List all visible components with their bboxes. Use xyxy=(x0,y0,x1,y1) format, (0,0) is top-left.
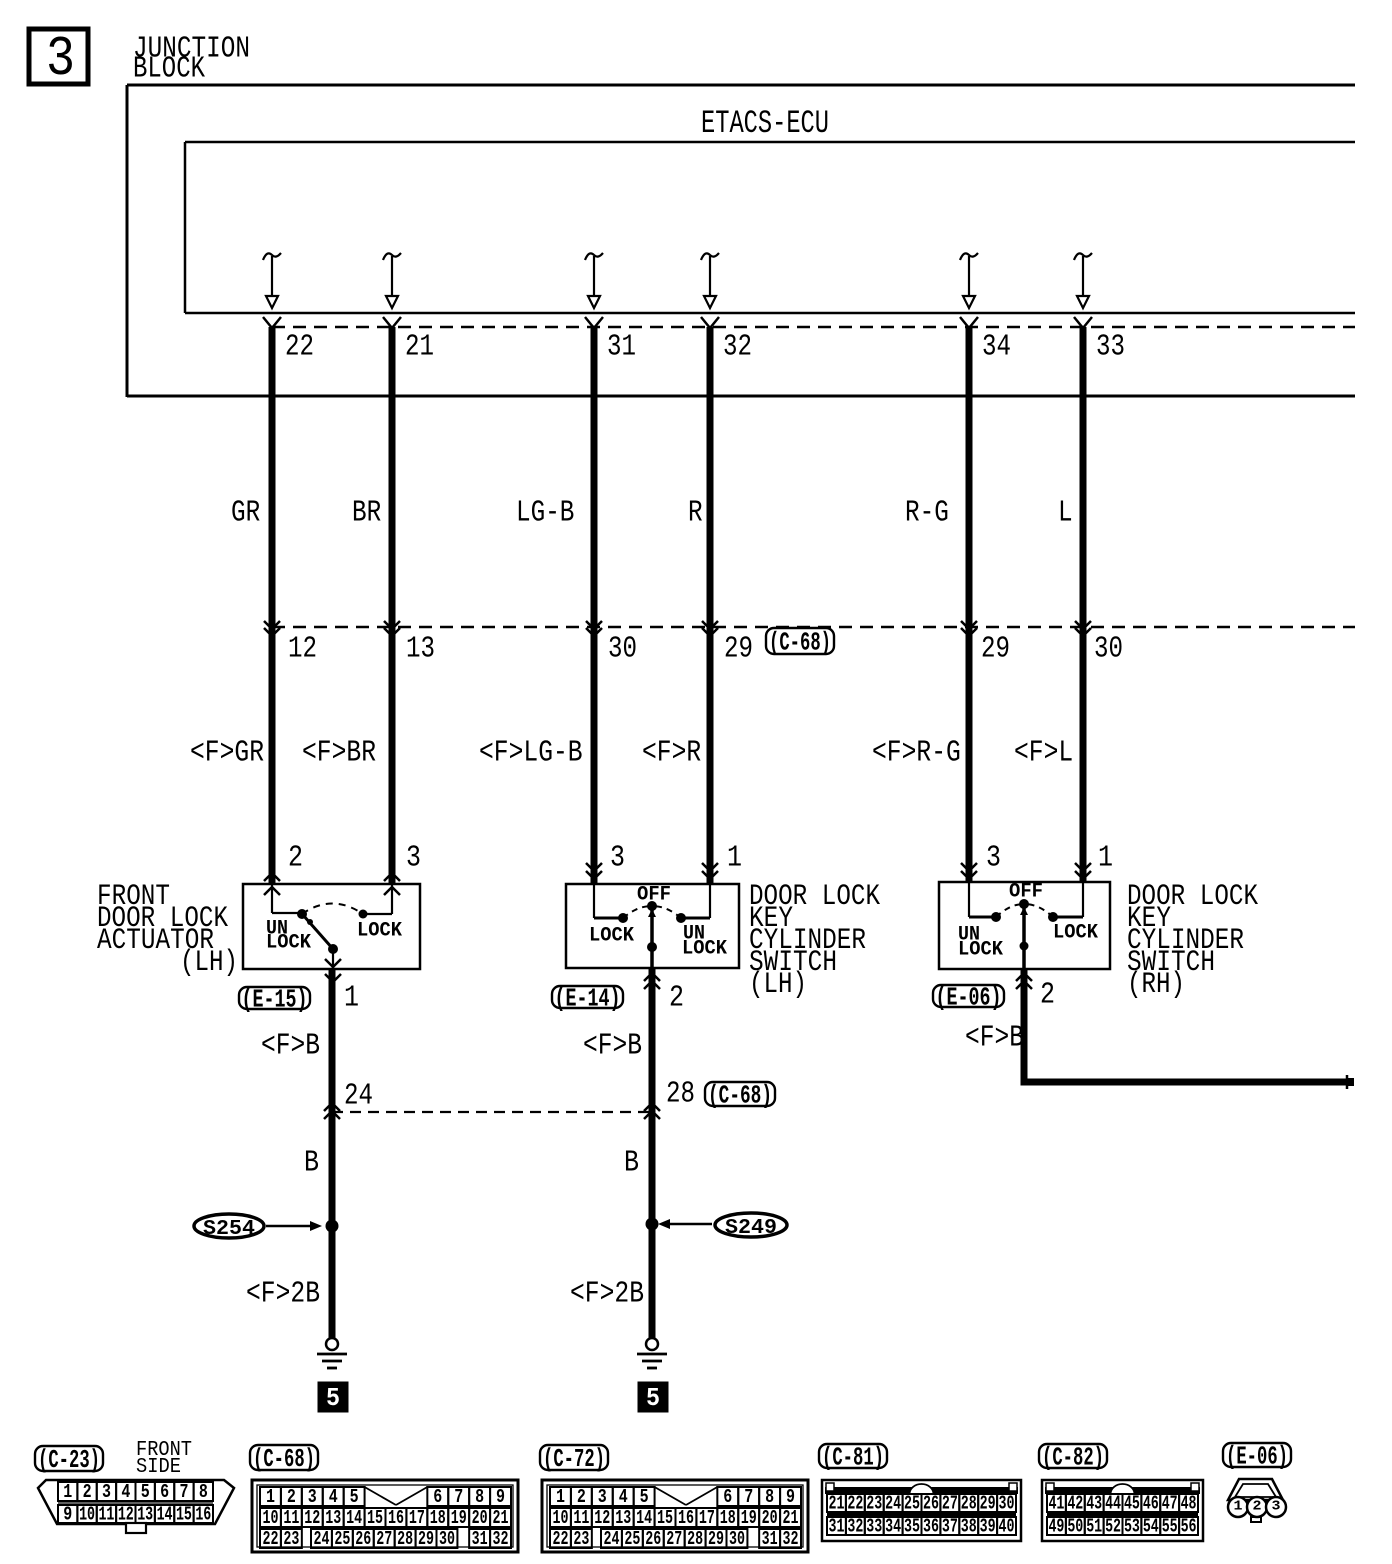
ground symbol xyxy=(317,1338,347,1368)
terminal fork pin 22 xyxy=(263,317,281,328)
svg-text:34: 34 xyxy=(885,1515,901,1537)
svg-text:LOCK: LOCK xyxy=(682,937,727,960)
svg-text:23: 23 xyxy=(573,1528,589,1550)
svg-text:<F>R: <F>R xyxy=(642,736,701,771)
svg-text:2: 2 xyxy=(1253,1499,1262,1515)
svg-text:6: 6 xyxy=(160,1481,169,1503)
svg-text:5: 5 xyxy=(640,1486,649,1508)
connector C-72 pinout xyxy=(542,1480,808,1552)
svg-text:5: 5 xyxy=(141,1481,150,1503)
svg-text:12: 12 xyxy=(288,632,317,667)
svg-text:39: 39 xyxy=(980,1515,996,1537)
svg-text:27: 27 xyxy=(376,1528,392,1550)
ground reference 5 box xyxy=(638,1382,668,1413)
connector arrows at pin 30 xyxy=(1075,621,1091,636)
terminal fork pin 32 xyxy=(701,317,719,328)
svg-text:3: 3 xyxy=(406,841,421,876)
svg-text:OFF: OFF xyxy=(637,883,671,906)
svg-text:49: 49 xyxy=(1048,1515,1064,1537)
svg-text:SIDE: SIDE xyxy=(136,1456,181,1479)
svg-text:R: R xyxy=(688,496,703,531)
svg-text:37: 37 xyxy=(942,1515,958,1537)
label DOOR LOCK KEY CYLINDER SWITCH (RH) xyxy=(1127,880,1258,1002)
svg-text:12: 12 xyxy=(304,1507,320,1529)
svg-text:29: 29 xyxy=(980,1492,996,1514)
svg-text:(LH): (LH) xyxy=(180,946,238,980)
terminal arrows (up) at actuator xyxy=(384,873,400,895)
connector label C-72 oval xyxy=(540,1445,608,1470)
svg-text:11: 11 xyxy=(98,1503,114,1525)
svg-text:26: 26 xyxy=(645,1528,661,1550)
svg-text:22: 22 xyxy=(262,1528,278,1550)
svg-text:(C-72): (C-72) xyxy=(543,1444,605,1474)
connector arrows at pin 29 xyxy=(702,621,718,636)
svg-text:25: 25 xyxy=(904,1492,920,1514)
svg-text:17: 17 xyxy=(699,1507,715,1529)
svg-text:30: 30 xyxy=(439,1528,455,1550)
svg-text:<F>2B: <F>2B xyxy=(570,1277,644,1312)
svg-text:(C-68): (C-68) xyxy=(253,1444,315,1474)
svg-text:2: 2 xyxy=(577,1486,586,1508)
svg-text:(RH): (RH) xyxy=(1127,968,1185,1002)
svg-text:3: 3 xyxy=(986,841,1001,876)
ground symbol xyxy=(637,1338,667,1368)
svg-text:30: 30 xyxy=(1094,632,1123,667)
wire L wire 33 xyxy=(1080,327,1087,882)
svg-text:22: 22 xyxy=(285,330,314,365)
terminal fork pin 33 xyxy=(1074,317,1092,328)
actuator internal switch xyxy=(272,884,392,969)
svg-text:LOCK: LOCK xyxy=(589,924,634,947)
svg-text:5: 5 xyxy=(350,1486,359,1508)
label FRONT DOOR LOCK ACTUATOR (LH) xyxy=(97,880,238,980)
svg-text:3: 3 xyxy=(598,1486,607,1508)
svg-text:31: 31 xyxy=(828,1515,844,1537)
junction block outline xyxy=(127,85,1355,397)
svg-text:(C-68): (C-68) xyxy=(708,1081,772,1111)
svg-text:16: 16 xyxy=(388,1507,404,1529)
svg-text:31: 31 xyxy=(607,330,636,365)
dashed connector line at ECU pins xyxy=(272,326,1355,329)
connector arrows at pin 29 xyxy=(961,621,977,636)
svg-text:31: 31 xyxy=(472,1528,488,1550)
svg-text:7: 7 xyxy=(744,1486,753,1508)
door lock key cylinder switch (RH) box xyxy=(939,882,1110,969)
svg-text:2: 2 xyxy=(83,1481,92,1503)
svg-text:28: 28 xyxy=(666,1077,695,1112)
connector label C-81 oval xyxy=(819,1444,887,1468)
svg-text:21: 21 xyxy=(493,1507,509,1529)
svg-text:LOCK: LOCK xyxy=(1053,921,1098,944)
svg-text:OFF: OFF xyxy=(1009,880,1043,903)
svg-text:4: 4 xyxy=(329,1486,338,1508)
svg-text:ETACS-ECU: ETACS-ECU xyxy=(701,105,829,142)
svg-text:28: 28 xyxy=(397,1528,413,1550)
svg-text:47: 47 xyxy=(1162,1492,1178,1514)
connector arrows at pin 12 xyxy=(264,621,280,636)
terminal arrows (up) at actuator xyxy=(264,873,280,895)
svg-text:<F>LG-B: <F>LG-B xyxy=(479,736,583,771)
svg-text:(E-15): (E-15) xyxy=(242,985,308,1015)
svg-text:34: 34 xyxy=(982,330,1011,365)
svg-text:48: 48 xyxy=(1181,1492,1197,1514)
svg-text:(C-68): (C-68) xyxy=(769,628,831,658)
svg-text:44: 44 xyxy=(1105,1492,1121,1514)
switch LH exit arrows xyxy=(644,973,660,989)
wire R-G wire 34 xyxy=(966,327,973,882)
svg-text:3: 3 xyxy=(610,841,625,876)
svg-text:16: 16 xyxy=(195,1503,211,1525)
svg-text:(C-81): (C-81) xyxy=(822,1443,884,1473)
svg-text:54: 54 xyxy=(1143,1515,1159,1537)
splice S249 oval xyxy=(715,1213,787,1240)
splice junction dot left xyxy=(326,1220,339,1233)
svg-text:29: 29 xyxy=(724,632,753,667)
switch RH internals xyxy=(969,882,1083,968)
wire B from switch RH xyxy=(1024,968,1348,1082)
svg-text:(E-14): (E-14) xyxy=(555,984,621,1014)
wire B from actuator xyxy=(329,969,336,1338)
svg-text:(C-82): (C-82) xyxy=(1042,1443,1104,1473)
label FRONT SIDE xyxy=(136,1439,192,1479)
svg-text:24: 24 xyxy=(603,1528,619,1550)
svg-text:LOCK: LOCK xyxy=(958,938,1003,961)
svg-text:<F>R-G: <F>R-G xyxy=(872,736,961,771)
svg-text:24: 24 xyxy=(344,1079,373,1114)
wire R wire 32 xyxy=(707,327,714,884)
svg-text:22: 22 xyxy=(847,1492,863,1514)
connector C-82 pinout xyxy=(1042,1480,1203,1541)
svg-text:10: 10 xyxy=(262,1507,278,1529)
svg-text:27: 27 xyxy=(942,1492,958,1514)
svg-text:13: 13 xyxy=(615,1507,631,1529)
svg-text:29: 29 xyxy=(981,632,1010,667)
svg-text:32: 32 xyxy=(847,1515,863,1537)
svg-text:16: 16 xyxy=(678,1507,694,1529)
svg-text:25: 25 xyxy=(624,1528,640,1550)
svg-text:21: 21 xyxy=(828,1492,844,1514)
svg-text:S254: S254 xyxy=(203,1218,255,1241)
svg-text:<F>B: <F>B xyxy=(261,1029,320,1064)
actuator exit arrows xyxy=(325,959,341,982)
svg-text:5: 5 xyxy=(326,1383,340,1413)
terminal arrows (down) at switch xyxy=(1075,863,1091,879)
svg-text:20: 20 xyxy=(762,1507,778,1529)
svg-text:29: 29 xyxy=(418,1528,434,1550)
svg-text:10: 10 xyxy=(552,1507,568,1529)
terminal fork pin 21 xyxy=(383,317,401,328)
terminal arrows (down) at switch xyxy=(702,863,718,879)
connector label C-68 oval xyxy=(250,1445,318,1470)
junction block sheet number 3 box xyxy=(29,29,88,84)
connector label C-82 oval xyxy=(1039,1444,1107,1468)
connector C-68 pinout xyxy=(252,1480,518,1552)
terminal arrows (down) at switch xyxy=(586,863,602,879)
svg-text:(E-06): (E-06) xyxy=(1226,1442,1288,1472)
label UN LOCK xyxy=(682,922,727,960)
svg-text:1: 1 xyxy=(266,1486,275,1508)
svg-text:LG-B: LG-B xyxy=(516,496,574,531)
svg-text:10: 10 xyxy=(79,1503,95,1525)
svg-text:53: 53 xyxy=(1124,1515,1140,1537)
ECU output arrow above pin 33 xyxy=(1074,253,1092,308)
svg-text:30: 30 xyxy=(608,632,637,667)
svg-text:32: 32 xyxy=(723,330,752,365)
svg-text:33: 33 xyxy=(866,1515,882,1537)
svg-text:15: 15 xyxy=(657,1507,673,1529)
svg-text:BR: BR xyxy=(352,496,381,531)
svg-text:4: 4 xyxy=(121,1481,130,1503)
label UN LOCK xyxy=(266,917,311,954)
svg-text:46: 46 xyxy=(1143,1492,1159,1514)
label JUNCTION BLOCK xyxy=(133,32,250,87)
svg-text:(E-06): (E-06) xyxy=(936,983,1002,1013)
svg-text:33: 33 xyxy=(1096,330,1125,365)
svg-text:24: 24 xyxy=(313,1528,329,1550)
svg-text:8: 8 xyxy=(765,1486,774,1508)
switch RH exit arrows xyxy=(1016,973,1032,989)
svg-text:4: 4 xyxy=(619,1486,628,1508)
ground reference 5 box xyxy=(318,1382,348,1413)
svg-text:15: 15 xyxy=(367,1507,383,1529)
svg-text:1: 1 xyxy=(727,841,742,876)
arrow S249 to wire xyxy=(658,1219,712,1229)
svg-text:30: 30 xyxy=(729,1528,745,1550)
connector label E-06 oval xyxy=(1223,1443,1291,1467)
svg-text:12: 12 xyxy=(594,1507,610,1529)
svg-text:19: 19 xyxy=(741,1507,757,1529)
svg-text:13: 13 xyxy=(406,632,435,667)
svg-text:6: 6 xyxy=(433,1486,442,1508)
ECU output arrow above pin 32 xyxy=(701,253,719,308)
dashed connector line C-68 lower xyxy=(332,1111,652,1113)
svg-text:22: 22 xyxy=(552,1528,568,1550)
svg-text:18: 18 xyxy=(430,1507,446,1529)
ECU output arrow above pin 21 xyxy=(383,253,401,308)
svg-text:2: 2 xyxy=(1040,978,1055,1013)
svg-text:55: 55 xyxy=(1162,1515,1178,1537)
svg-text:26: 26 xyxy=(355,1528,371,1550)
svg-text:11: 11 xyxy=(283,1507,299,1529)
svg-text:2: 2 xyxy=(288,841,303,876)
svg-text:1: 1 xyxy=(1098,841,1113,876)
svg-text:32: 32 xyxy=(783,1528,799,1550)
svg-text:56: 56 xyxy=(1181,1515,1197,1537)
svg-text:21: 21 xyxy=(783,1507,799,1529)
svg-text:(C-23): (C-23) xyxy=(38,1445,100,1475)
svg-text:1: 1 xyxy=(344,981,359,1016)
svg-text:28: 28 xyxy=(961,1492,977,1514)
splice S254 oval xyxy=(194,1214,264,1241)
wire end terminal mark xyxy=(1347,1075,1354,1089)
svg-text:13: 13 xyxy=(325,1507,341,1529)
svg-text:3: 3 xyxy=(1272,1499,1281,1515)
svg-text:17: 17 xyxy=(409,1507,425,1529)
connector arrows at pin 30 xyxy=(586,621,602,636)
terminal fork pin 31 xyxy=(585,317,603,328)
svg-text:2: 2 xyxy=(669,981,684,1016)
svg-text:3: 3 xyxy=(308,1486,317,1508)
svg-text:19: 19 xyxy=(451,1507,467,1529)
door lock key cylinder switch (LH) box xyxy=(566,884,739,968)
connector label E-14 oval xyxy=(552,986,623,1008)
svg-text:14: 14 xyxy=(346,1507,362,1529)
connector label E-06 oval xyxy=(933,985,1004,1007)
svg-text:<F>GR: <F>GR xyxy=(190,736,264,771)
svg-text:9: 9 xyxy=(786,1486,795,1508)
svg-text:35: 35 xyxy=(904,1515,920,1537)
arrow S254 to wire xyxy=(266,1221,322,1231)
svg-text:B: B xyxy=(624,1146,639,1181)
svg-text:11: 11 xyxy=(573,1507,589,1529)
wire LG-B wire 31 xyxy=(591,327,598,884)
svg-text:LOCK: LOCK xyxy=(266,931,311,954)
svg-text:51: 51 xyxy=(1086,1515,1102,1537)
svg-text:L: L xyxy=(1058,496,1073,531)
svg-text:8: 8 xyxy=(199,1481,208,1503)
front door lock actuator (LH) box xyxy=(243,884,420,969)
svg-text:20: 20 xyxy=(472,1507,488,1529)
svg-text:BLOCK: BLOCK xyxy=(133,52,205,87)
wire B from switch LH xyxy=(649,968,656,1338)
svg-text:6: 6 xyxy=(723,1486,732,1508)
svg-text:29: 29 xyxy=(708,1528,724,1550)
svg-text:S249: S249 xyxy=(725,1217,777,1240)
wire BR wire 21 xyxy=(389,327,396,884)
terminal fork pin 34 xyxy=(960,317,978,328)
svg-text:30: 30 xyxy=(999,1492,1015,1514)
wire GR wire 22 xyxy=(269,327,276,884)
svg-text:41: 41 xyxy=(1048,1492,1064,1514)
connector arrows pin 24 xyxy=(324,1103,340,1119)
svg-text:<F>B: <F>B xyxy=(583,1029,642,1064)
svg-text:25: 25 xyxy=(334,1528,350,1550)
svg-text:1: 1 xyxy=(63,1481,72,1503)
svg-text:15: 15 xyxy=(176,1503,192,1525)
svg-text:5: 5 xyxy=(646,1383,660,1413)
connector C-81 pinout xyxy=(822,1480,1021,1541)
svg-text:31: 31 xyxy=(762,1528,778,1550)
svg-text:24: 24 xyxy=(885,1492,901,1514)
svg-text:14: 14 xyxy=(157,1503,173,1525)
svg-text:50: 50 xyxy=(1067,1515,1083,1537)
svg-text:7: 7 xyxy=(179,1481,188,1503)
svg-text:8: 8 xyxy=(475,1486,484,1508)
ETACS-ECU box outline xyxy=(185,142,1355,313)
svg-text:52: 52 xyxy=(1105,1515,1121,1537)
svg-text:3: 3 xyxy=(102,1481,111,1503)
label DOOR LOCK KEY CYLINDER SWITCH (LH) xyxy=(749,880,880,1002)
svg-text:B: B xyxy=(304,1146,319,1181)
connector C-23 pinout xyxy=(38,1480,234,1533)
connector E-06 pinout xyxy=(1228,1479,1286,1522)
svg-text:<F>2B: <F>2B xyxy=(246,1277,320,1312)
label UN LOCK xyxy=(958,923,1003,961)
svg-text:R-G: R-G xyxy=(905,496,949,531)
svg-text:32: 32 xyxy=(493,1528,509,1550)
svg-text:9: 9 xyxy=(496,1486,505,1508)
dashed connector line C-68 xyxy=(272,626,1355,629)
svg-text:<F>BR: <F>BR xyxy=(302,736,376,771)
svg-text:43: 43 xyxy=(1086,1492,1102,1514)
svg-text:<F>L: <F>L xyxy=(1014,736,1073,771)
ECU output arrow above pin 34 xyxy=(960,253,978,308)
svg-text:21: 21 xyxy=(405,330,434,365)
svg-text:40: 40 xyxy=(999,1515,1015,1537)
svg-text:7: 7 xyxy=(454,1486,463,1508)
connector label C-23 oval xyxy=(35,1446,103,1471)
svg-text:42: 42 xyxy=(1067,1492,1083,1514)
splice junction dot right xyxy=(646,1218,659,1231)
svg-text:26: 26 xyxy=(923,1492,939,1514)
svg-text:(LH): (LH) xyxy=(749,968,807,1002)
svg-text:<F>B: <F>B xyxy=(965,1021,1024,1056)
ECU output arrow above pin 22 xyxy=(263,253,281,308)
svg-text:3: 3 xyxy=(46,27,75,91)
connector arrows at pin 13 xyxy=(384,621,400,636)
svg-text:28: 28 xyxy=(687,1528,703,1550)
svg-text:23: 23 xyxy=(283,1528,299,1550)
connector label C-68 oval lower xyxy=(705,1082,775,1106)
switch LH internals xyxy=(594,884,710,968)
svg-text:18: 18 xyxy=(720,1507,736,1529)
ECU output arrow above pin 31 xyxy=(585,253,603,308)
svg-text:GR: GR xyxy=(231,496,260,531)
svg-text:23: 23 xyxy=(866,1492,882,1514)
svg-text:14: 14 xyxy=(636,1507,652,1529)
svg-text:36: 36 xyxy=(923,1515,939,1537)
svg-text:LOCK: LOCK xyxy=(357,919,402,942)
svg-text:38: 38 xyxy=(961,1515,977,1537)
svg-text:27: 27 xyxy=(666,1528,682,1550)
svg-text:2: 2 xyxy=(287,1486,296,1508)
connector label E-15 oval xyxy=(239,987,310,1009)
terminal arrows (down) at switch xyxy=(961,863,977,879)
svg-text:1: 1 xyxy=(556,1486,565,1508)
svg-text:45: 45 xyxy=(1124,1492,1140,1514)
svg-text:9: 9 xyxy=(63,1503,72,1525)
connector arrows pin 28 xyxy=(644,1103,660,1119)
connector label C-68 oval xyxy=(766,628,834,654)
svg-text:1: 1 xyxy=(1234,1499,1243,1515)
